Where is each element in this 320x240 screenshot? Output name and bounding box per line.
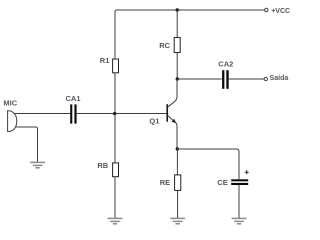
wire +VCC top rail [115,10,265,12]
ground (CE) [232,218,247,223]
wire collector vertical into transistor [168,79,177,107]
svg-text:MIC: MIC [3,99,17,108]
terminal Saida [264,75,288,82]
wire CA2 to Saida terminal [229,78,264,80]
wire emitter diagonal and down [168,116,177,150]
wire emitter node to CE [177,149,239,179]
ground (microphone) [30,162,45,167]
wire R1 bottom to base node [114,73,116,114]
svg-text:CE: CE [217,178,227,187]
svg-text:+VCC: +VCC [271,8,290,15]
resistor R1 [100,56,119,73]
microphone MIC [3,99,17,132]
capacitor CE [217,170,248,187]
ground (RB) [108,218,123,223]
transistor Q1 [149,104,176,125]
node emitter junction [176,147,179,150]
svg-text:Saída: Saída [270,75,289,82]
node collector junction [176,77,179,80]
wire MIC top lead to CA1 [14,113,70,115]
wire rail to RC [176,10,178,38]
wire RE to ground [177,190,179,218]
wire CA1 to base node [77,113,167,115]
node base junction [113,112,116,115]
ground (RE) [170,218,185,223]
svg-text:CA2: CA2 [218,60,233,69]
node +VCC/RC junction [176,8,179,11]
terminal +VCC [265,8,290,15]
svg-text:R1: R1 [100,56,110,65]
wire RB to ground [114,177,116,219]
resistor RC [159,38,180,53]
svg-text:RC: RC [159,41,170,50]
resistor RE [160,175,181,191]
capacitor CA1 [66,94,81,124]
svg-text:CA1: CA1 [66,94,81,103]
wire emitter node to RE [176,149,178,175]
resistor RB [97,161,118,177]
capacitor CA2 [218,60,233,89]
svg-text:RB: RB [97,161,108,170]
wire CE to ground [238,185,240,218]
svg-text:Q1: Q1 [149,117,159,126]
wire collector node to CA2 [177,78,222,80]
wire MIC bottom lead to ground [15,127,38,162]
wire R1 top (rail to R1) [114,11,116,59]
wire base node to RB [114,114,116,164]
wire RC to collector node [176,53,178,80]
svg-text:RE: RE [160,178,170,187]
